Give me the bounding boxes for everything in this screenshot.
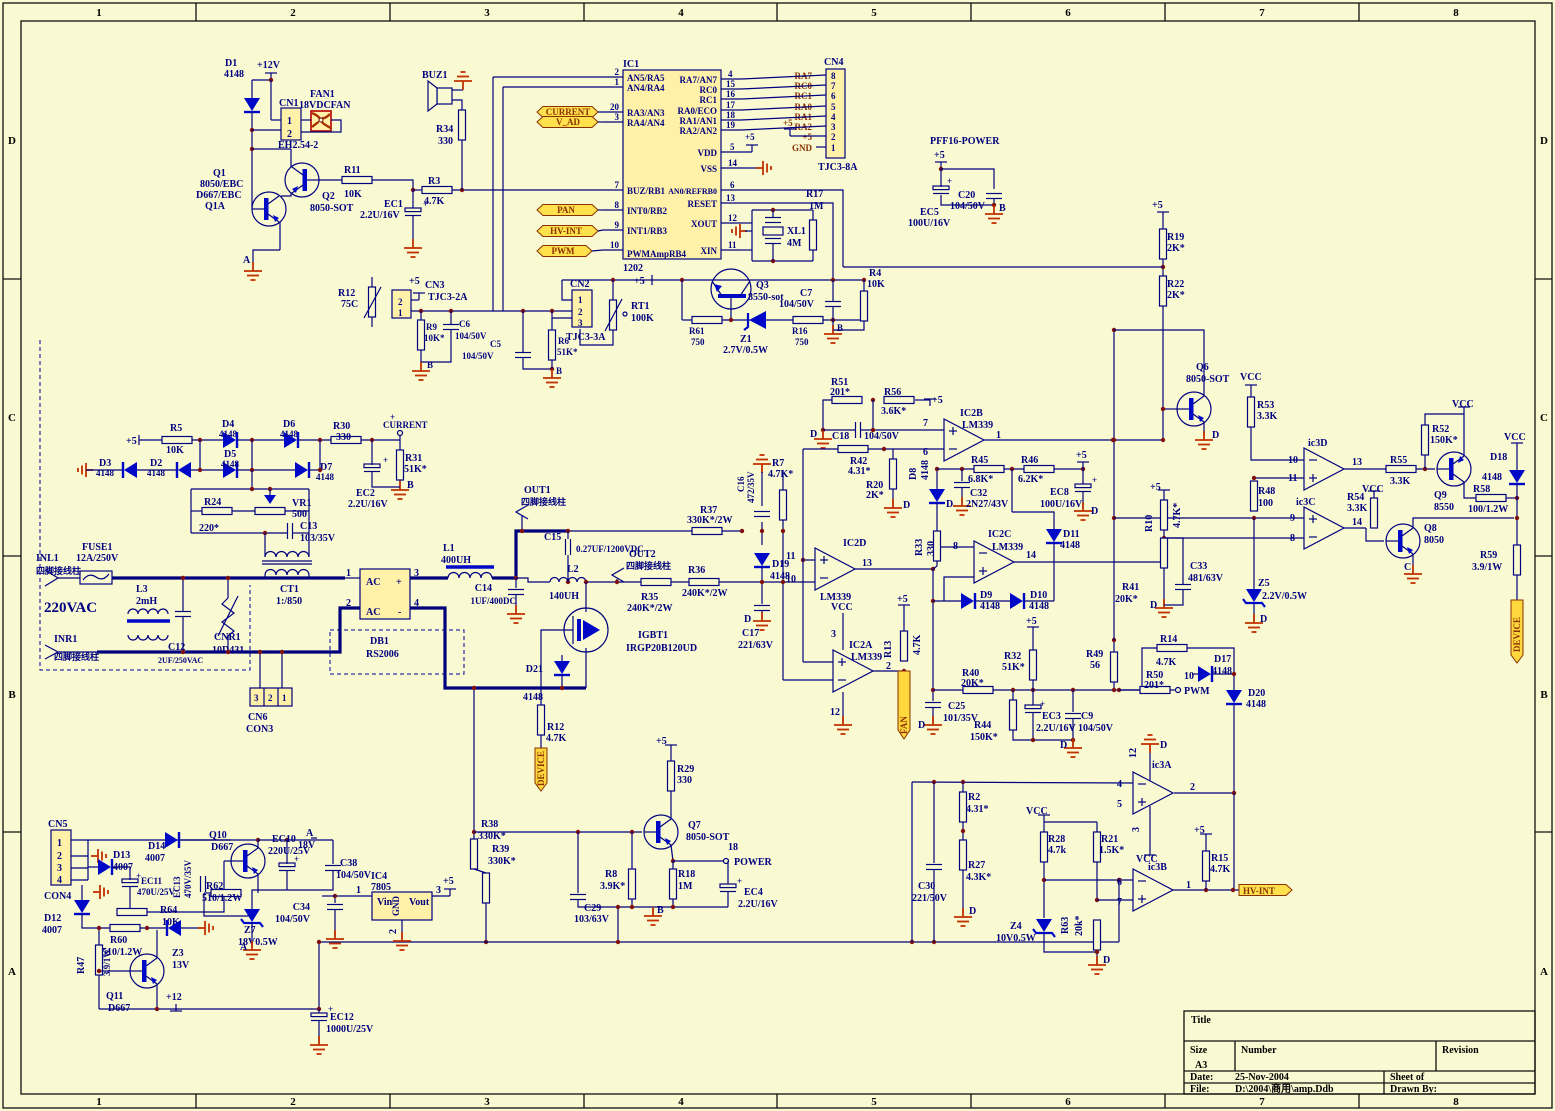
svg-text:4148: 4148 bbox=[224, 69, 244, 80]
svg-text:4148: 4148 bbox=[1482, 472, 1502, 483]
svg-text:R15: R15 bbox=[1211, 853, 1228, 864]
svg-text:B: B bbox=[8, 689, 16, 701]
svg-text:C20: C20 bbox=[958, 190, 975, 201]
svg-text:R24: R24 bbox=[204, 497, 221, 508]
svg-text:19: 19 bbox=[726, 120, 736, 130]
svg-text:+: + bbox=[383, 455, 388, 465]
svg-text:150K*: 150K* bbox=[970, 732, 998, 743]
svg-text:R34: R34 bbox=[436, 124, 453, 135]
svg-text:C7: C7 bbox=[800, 288, 812, 299]
svg-text:VCC: VCC bbox=[1240, 372, 1262, 383]
svg-text:10K: 10K bbox=[166, 445, 184, 456]
svg-text:AC: AC bbox=[366, 607, 380, 618]
svg-text:INT1/RB3: INT1/RB3 bbox=[627, 226, 668, 236]
svg-text:R48: R48 bbox=[1258, 486, 1275, 497]
svg-text:CN4: CN4 bbox=[824, 57, 843, 68]
svg-text:C14: C14 bbox=[475, 583, 492, 594]
svg-text:1202: 1202 bbox=[623, 263, 643, 274]
svg-text:DEVICE: DEVICE bbox=[536, 751, 546, 786]
svg-text:R2: R2 bbox=[968, 792, 980, 803]
svg-text:11: 11 bbox=[728, 240, 737, 250]
svg-text:R38: R38 bbox=[481, 819, 498, 830]
svg-text:C6: C6 bbox=[459, 319, 470, 329]
svg-text:EC4: EC4 bbox=[744, 887, 763, 898]
svg-text:DB1: DB1 bbox=[370, 636, 389, 647]
svg-text:Z1: Z1 bbox=[740, 334, 752, 345]
svg-text:+5: +5 bbox=[932, 395, 943, 406]
svg-text:2: 2 bbox=[1190, 782, 1195, 793]
svg-text:C: C bbox=[8, 412, 16, 424]
svg-text:EC3: EC3 bbox=[1042, 711, 1061, 722]
svg-text:2: 2 bbox=[290, 7, 296, 19]
svg-text:D9: D9 bbox=[980, 590, 992, 601]
svg-text:RA1/AN1: RA1/AN1 bbox=[680, 116, 718, 126]
svg-text:R21: R21 bbox=[1101, 834, 1118, 845]
svg-text:C: C bbox=[1404, 562, 1411, 573]
svg-text:1: 1 bbox=[356, 885, 361, 896]
svg-text:330K*/2W: 330K*/2W bbox=[687, 515, 733, 526]
svg-text:R12: R12 bbox=[547, 722, 564, 733]
svg-text:1M: 1M bbox=[678, 881, 693, 892]
svg-text:L1: L1 bbox=[443, 543, 455, 554]
svg-text:3.3K: 3.3K bbox=[1390, 476, 1411, 487]
svg-text:IC4: IC4 bbox=[371, 871, 387, 882]
svg-text:470U/25V: 470U/25V bbox=[137, 887, 176, 897]
svg-text:2K*: 2K* bbox=[866, 490, 884, 501]
svg-text:1000U/25V: 1000U/25V bbox=[326, 1024, 374, 1035]
svg-text:4: 4 bbox=[678, 1096, 684, 1108]
svg-text:B: B bbox=[999, 203, 1006, 214]
svg-text:750: 750 bbox=[691, 337, 705, 347]
svg-text:14: 14 bbox=[1026, 550, 1036, 561]
svg-text:9: 9 bbox=[1290, 513, 1295, 524]
svg-text:3: 3 bbox=[436, 885, 441, 896]
svg-text:CN1: CN1 bbox=[279, 98, 298, 109]
svg-text:VCC: VCC bbox=[1452, 399, 1474, 410]
svg-text:1: 1 bbox=[1186, 880, 1191, 891]
svg-text:17: 17 bbox=[726, 100, 736, 110]
svg-text:2K*: 2K* bbox=[1167, 290, 1185, 301]
svg-text:BUZ/RB1: BUZ/RB1 bbox=[627, 186, 666, 196]
svg-text:9: 9 bbox=[615, 220, 620, 230]
svg-text:4148: 4148 bbox=[1212, 666, 1232, 677]
svg-text:13: 13 bbox=[1352, 457, 1362, 468]
svg-text:4M: 4M bbox=[787, 238, 802, 249]
svg-text:12: 12 bbox=[1128, 748, 1139, 758]
svg-text:C13: C13 bbox=[300, 521, 317, 532]
svg-text:D: D bbox=[8, 135, 16, 147]
svg-text:R55: R55 bbox=[1390, 455, 1407, 466]
svg-text:2: 2 bbox=[388, 929, 399, 934]
svg-text:8: 8 bbox=[615, 200, 620, 210]
svg-text:R28: R28 bbox=[1048, 834, 1065, 845]
svg-text:6: 6 bbox=[1117, 877, 1122, 888]
svg-text:7: 7 bbox=[923, 418, 928, 429]
svg-text:Title: Title bbox=[1191, 1015, 1211, 1026]
svg-text:75C: 75C bbox=[341, 299, 358, 310]
svg-text:1: 1 bbox=[578, 295, 583, 305]
svg-text:6.2K*: 6.2K* bbox=[1018, 474, 1043, 485]
svg-text:V_AD: V_AD bbox=[556, 117, 580, 127]
svg-text:D8: D8 bbox=[908, 468, 919, 480]
svg-text:330: 330 bbox=[336, 432, 351, 443]
svg-text:CON4: CON4 bbox=[44, 891, 71, 902]
svg-text:R13: R13 bbox=[883, 641, 894, 658]
svg-text:R9: R9 bbox=[426, 322, 437, 332]
svg-text:201*: 201* bbox=[830, 387, 850, 398]
svg-text:Q1: Q1 bbox=[213, 168, 226, 179]
svg-text:RA2/AN2: RA2/AN2 bbox=[680, 126, 718, 136]
svg-text:1UF/400DC: 1UF/400DC bbox=[471, 596, 517, 606]
svg-text:1: 1 bbox=[96, 1096, 102, 1108]
svg-text:+5: +5 bbox=[634, 276, 645, 287]
svg-text:VCC: VCC bbox=[831, 602, 853, 613]
svg-text:221/50V: 221/50V bbox=[912, 893, 948, 904]
svg-text:51K*: 51K* bbox=[404, 464, 427, 475]
svg-text:10: 10 bbox=[1184, 671, 1194, 682]
svg-text:+: + bbox=[1040, 699, 1045, 709]
svg-text:3.6K*: 3.6K* bbox=[881, 406, 906, 417]
svg-text:RT1: RT1 bbox=[631, 301, 650, 312]
svg-text:4148: 4148 bbox=[1060, 540, 1080, 551]
svg-text:D: D bbox=[1260, 614, 1267, 625]
svg-text:6: 6 bbox=[730, 180, 735, 190]
svg-text:A: A bbox=[306, 828, 314, 839]
svg-text:PFF16-POWER: PFF16-POWER bbox=[930, 136, 1000, 147]
svg-text:AC: AC bbox=[366, 577, 380, 588]
svg-text:ic3A: ic3A bbox=[1152, 760, 1172, 771]
svg-text:4.7K: 4.7K bbox=[546, 733, 567, 744]
svg-text:C38: C38 bbox=[340, 858, 357, 869]
svg-text:-: - bbox=[398, 607, 401, 618]
svg-text:330: 330 bbox=[677, 775, 692, 786]
svg-text:INL1: INL1 bbox=[36, 553, 59, 564]
svg-text:+5: +5 bbox=[1076, 450, 1087, 461]
svg-text:L3: L3 bbox=[136, 584, 148, 595]
svg-text:4: 4 bbox=[728, 69, 733, 79]
svg-text:Q2: Q2 bbox=[322, 191, 335, 202]
svg-text:Q10: Q10 bbox=[209, 830, 227, 841]
svg-text:PWMAmpRB4: PWMAmpRB4 bbox=[627, 249, 686, 259]
svg-text:A: A bbox=[243, 255, 251, 266]
svg-text:104/50V: 104/50V bbox=[779, 299, 815, 310]
svg-text:R64: R64 bbox=[160, 905, 177, 916]
svg-text:2: 2 bbox=[57, 851, 62, 862]
svg-text:1: 1 bbox=[282, 693, 287, 703]
svg-text:D: D bbox=[1212, 430, 1219, 441]
svg-text:R32: R32 bbox=[1004, 651, 1021, 662]
svg-text:3: 3 bbox=[1131, 827, 1142, 832]
svg-text:A3: A3 bbox=[1195, 1060, 1207, 1071]
svg-text:FAN1: FAN1 bbox=[310, 89, 335, 100]
svg-text:R29: R29 bbox=[677, 764, 694, 775]
svg-text:13: 13 bbox=[726, 193, 736, 203]
svg-text:C33: C33 bbox=[1190, 561, 1207, 572]
svg-text:330K*: 330K* bbox=[488, 856, 516, 867]
svg-text:8: 8 bbox=[1453, 7, 1459, 19]
svg-text:4.7k: 4.7k bbox=[1048, 845, 1067, 856]
svg-text:2.7V/0.5W: 2.7V/0.5W bbox=[723, 345, 768, 356]
svg-text:RESET: RESET bbox=[687, 199, 717, 209]
svg-text:7: 7 bbox=[1259, 1096, 1265, 1108]
svg-text:330K*: 330K* bbox=[478, 831, 506, 842]
svg-text:221/63V: 221/63V bbox=[738, 640, 774, 651]
svg-text:R22: R22 bbox=[1167, 279, 1184, 290]
svg-text:Date:: Date: bbox=[1190, 1072, 1213, 1083]
svg-text:Z5: Z5 bbox=[1258, 578, 1270, 589]
svg-text:+5: +5 bbox=[1026, 616, 1037, 627]
svg-text:R53: R53 bbox=[1257, 400, 1274, 411]
svg-text:R12: R12 bbox=[338, 288, 355, 299]
svg-text:+: + bbox=[423, 199, 428, 209]
svg-text:3: 3 bbox=[254, 693, 259, 703]
svg-text:BUZ1: BUZ1 bbox=[422, 70, 448, 81]
svg-text:10: 10 bbox=[786, 574, 796, 585]
svg-text:D17: D17 bbox=[1214, 654, 1231, 665]
svg-text:3.3K: 3.3K bbox=[1257, 411, 1278, 422]
svg-text:8050-SOT: 8050-SOT bbox=[1186, 374, 1230, 385]
svg-text:10K: 10K bbox=[344, 189, 362, 200]
svg-text:1: 1 bbox=[96, 7, 102, 19]
svg-text:+5: +5 bbox=[897, 594, 908, 605]
svg-text:ic3B: ic3B bbox=[1148, 862, 1167, 873]
svg-text:4.3K*: 4.3K* bbox=[966, 872, 991, 883]
svg-text:2.2V/0.5W: 2.2V/0.5W bbox=[1262, 591, 1307, 602]
svg-text:VR1: VR1 bbox=[292, 498, 311, 509]
svg-text:C16: C16 bbox=[736, 476, 746, 492]
svg-text:2N27/43V: 2N27/43V bbox=[966, 499, 1009, 510]
svg-text:Q9: Q9 bbox=[1434, 490, 1447, 501]
svg-text:R39: R39 bbox=[492, 844, 509, 855]
svg-text:20k*: 20k* bbox=[1074, 915, 1085, 936]
svg-text:2: 2 bbox=[346, 598, 351, 609]
svg-text:EC12: EC12 bbox=[330, 1012, 354, 1023]
svg-text:R5: R5 bbox=[170, 423, 182, 434]
svg-text:R61: R61 bbox=[689, 326, 705, 336]
svg-text:6: 6 bbox=[1065, 7, 1071, 19]
svg-text:Sheet of: Sheet of bbox=[1390, 1072, 1425, 1083]
svg-text:+5: +5 bbox=[802, 132, 812, 142]
svg-text:D1: D1 bbox=[225, 58, 237, 69]
svg-text:Number: Number bbox=[1241, 1045, 1277, 1056]
svg-text:D18: D18 bbox=[1490, 452, 1507, 463]
svg-text:2: 2 bbox=[615, 67, 620, 77]
svg-text:AN0/REFRB0: AN0/REFRB0 bbox=[668, 187, 717, 196]
svg-text:IC2C: IC2C bbox=[988, 529, 1011, 540]
svg-text:EC10: EC10 bbox=[272, 834, 296, 845]
svg-text:4148: 4148 bbox=[219, 429, 238, 439]
svg-text:B: B bbox=[837, 323, 843, 333]
svg-text:201*: 201* bbox=[1144, 680, 1164, 691]
svg-text:3.9/1W: 3.9/1W bbox=[1472, 562, 1502, 573]
svg-text:四脚接线柱: 四脚接线柱 bbox=[626, 560, 671, 571]
svg-text:C18: C18 bbox=[832, 431, 849, 442]
svg-text:R7: R7 bbox=[772, 458, 784, 469]
svg-text:B: B bbox=[427, 360, 433, 370]
svg-text:C34: C34 bbox=[293, 902, 310, 913]
svg-text:Q11: Q11 bbox=[106, 991, 123, 1002]
svg-text:8050-SOT: 8050-SOT bbox=[310, 203, 354, 214]
svg-text:D: D bbox=[1103, 955, 1110, 966]
svg-text:4.7K*: 4.7K* bbox=[1172, 503, 1183, 528]
svg-text:R56: R56 bbox=[884, 387, 901, 398]
svg-text:6: 6 bbox=[831, 91, 836, 101]
svg-text:Z4: Z4 bbox=[1010, 921, 1022, 932]
svg-text:25-Nov-2004: 25-Nov-2004 bbox=[1235, 1072, 1289, 1083]
svg-text:10K*: 10K* bbox=[424, 333, 445, 343]
svg-text:R14: R14 bbox=[1160, 634, 1177, 645]
svg-text:D14: D14 bbox=[148, 841, 165, 852]
svg-text:Revision: Revision bbox=[1442, 1045, 1479, 1056]
svg-text:104/50V: 104/50V bbox=[864, 431, 900, 442]
svg-text:R52: R52 bbox=[1432, 424, 1449, 435]
svg-text:Drawn By:: Drawn By: bbox=[1390, 1084, 1437, 1095]
svg-text:R31: R31 bbox=[405, 453, 422, 464]
svg-text:D11: D11 bbox=[1063, 529, 1080, 540]
svg-text:R16: R16 bbox=[792, 326, 808, 336]
svg-text:D: D bbox=[1150, 600, 1157, 611]
svg-text:1: 1 bbox=[831, 143, 836, 153]
svg-text:330: 330 bbox=[438, 136, 453, 147]
svg-text:R11: R11 bbox=[344, 165, 361, 176]
svg-text:103/63V: 103/63V bbox=[574, 914, 610, 925]
svg-text:DEVICE: DEVICE bbox=[1512, 617, 1522, 652]
svg-text:+5: +5 bbox=[1150, 482, 1161, 493]
svg-text:EC2: EC2 bbox=[356, 488, 375, 499]
svg-text:104/50V: 104/50V bbox=[1078, 723, 1114, 734]
svg-text:4: 4 bbox=[1117, 779, 1122, 790]
svg-text:14: 14 bbox=[1352, 517, 1362, 528]
svg-text:5: 5 bbox=[831, 102, 836, 112]
svg-text:RA0/ECO: RA0/ECO bbox=[677, 106, 717, 116]
svg-text:CT1: CT1 bbox=[280, 584, 299, 595]
svg-text:14: 14 bbox=[728, 158, 738, 168]
svg-text:C30: C30 bbox=[918, 881, 935, 892]
svg-text:ic3D: ic3D bbox=[1308, 438, 1327, 449]
svg-text:R58: R58 bbox=[1473, 484, 1490, 495]
svg-text:EC1: EC1 bbox=[384, 199, 403, 210]
svg-text:C9: C9 bbox=[1081, 711, 1093, 722]
svg-text:ic3C: ic3C bbox=[1296, 497, 1315, 508]
svg-text:Q6: Q6 bbox=[1196, 362, 1209, 373]
svg-text:Q7: Q7 bbox=[688, 820, 701, 831]
svg-text:104/50V: 104/50V bbox=[950, 201, 986, 212]
svg-text:TJC3-8A: TJC3-8A bbox=[818, 162, 858, 173]
svg-text:4: 4 bbox=[831, 112, 836, 122]
svg-text:D: D bbox=[810, 429, 817, 440]
svg-text:FUSE1: FUSE1 bbox=[82, 542, 113, 553]
svg-text:IGBT1: IGBT1 bbox=[638, 630, 668, 641]
svg-text:XOUT: XOUT bbox=[691, 219, 717, 229]
svg-text:1.5K*: 1.5K* bbox=[1099, 845, 1124, 856]
svg-text:+5: +5 bbox=[126, 436, 137, 447]
svg-text:220*: 220* bbox=[199, 523, 219, 534]
svg-text:D: D bbox=[969, 906, 976, 917]
svg-text:100U/16V: 100U/16V bbox=[908, 218, 951, 229]
svg-text:D21: D21 bbox=[526, 664, 543, 675]
svg-text:18V: 18V bbox=[298, 840, 316, 851]
svg-text:CON3: CON3 bbox=[246, 724, 273, 735]
svg-text:A: A bbox=[1540, 966, 1548, 978]
svg-text:4148: 4148 bbox=[1029, 601, 1049, 612]
svg-text:CN5: CN5 bbox=[48, 819, 67, 830]
svg-text:POWER: POWER bbox=[734, 857, 773, 868]
svg-text:+: + bbox=[1092, 475, 1097, 485]
svg-text:LM339: LM339 bbox=[992, 542, 1023, 553]
svg-text:D: D bbox=[744, 614, 751, 625]
svg-text:10K: 10K bbox=[867, 279, 885, 290]
svg-text:D: D bbox=[1160, 740, 1167, 751]
svg-text:104/50V: 104/50V bbox=[336, 870, 372, 881]
svg-text:10: 10 bbox=[1288, 455, 1298, 466]
svg-text:Q1A: Q1A bbox=[205, 201, 226, 212]
svg-text:4148: 4148 bbox=[147, 468, 166, 478]
svg-text:PWM: PWM bbox=[1184, 686, 1210, 697]
svg-text:A: A bbox=[240, 942, 248, 953]
svg-text:2.2U/16V: 2.2U/16V bbox=[1036, 723, 1077, 734]
svg-text:4148: 4148 bbox=[280, 429, 299, 439]
svg-text:RC1: RC1 bbox=[700, 95, 718, 105]
svg-text:2mH: 2mH bbox=[136, 596, 157, 607]
svg-text:20: 20 bbox=[610, 102, 620, 112]
svg-text:1: 1 bbox=[996, 430, 1001, 441]
svg-text:3: 3 bbox=[578, 318, 583, 328]
svg-text:8050: 8050 bbox=[1424, 535, 1444, 546]
svg-text:R33: R33 bbox=[914, 539, 925, 556]
svg-text:PWM: PWM bbox=[552, 246, 575, 256]
svg-text:18VDCFAN: 18VDCFAN bbox=[299, 100, 351, 111]
svg-text:+5: +5 bbox=[745, 132, 755, 142]
svg-text:12: 12 bbox=[728, 213, 738, 223]
svg-text:100/1.2W: 100/1.2W bbox=[1468, 504, 1508, 515]
svg-text:EC13: EC13 bbox=[172, 876, 182, 898]
svg-text:104/50V: 104/50V bbox=[275, 914, 311, 925]
svg-text:CN3: CN3 bbox=[425, 280, 444, 291]
svg-text:11: 11 bbox=[786, 551, 795, 562]
svg-text:GND: GND bbox=[391, 896, 401, 917]
svg-text:7: 7 bbox=[615, 180, 620, 190]
svg-text:D13: D13 bbox=[113, 850, 130, 861]
svg-text:CURRENT: CURRENT bbox=[546, 107, 591, 117]
svg-text:INR1: INR1 bbox=[54, 634, 77, 645]
svg-text:3: 3 bbox=[57, 863, 62, 874]
svg-text:+: + bbox=[737, 876, 742, 886]
svg-text:R35: R35 bbox=[641, 592, 658, 603]
svg-text:C: C bbox=[1540, 412, 1548, 424]
svg-text:8550: 8550 bbox=[1434, 502, 1454, 513]
svg-text:10: 10 bbox=[610, 240, 620, 250]
svg-text:+5: +5 bbox=[934, 150, 945, 161]
svg-text:C32: C32 bbox=[970, 488, 987, 499]
svg-text:+5: +5 bbox=[443, 876, 454, 887]
svg-text:R8: R8 bbox=[605, 869, 617, 880]
svg-text:4148: 4148 bbox=[96, 468, 115, 478]
svg-text:IC2B: IC2B bbox=[960, 408, 983, 419]
svg-text:四脚接线柱: 四脚接线柱 bbox=[54, 651, 99, 662]
svg-text:104/50V: 104/50V bbox=[462, 351, 494, 361]
svg-text:VCC: VCC bbox=[1362, 484, 1384, 495]
svg-text:51K*: 51K* bbox=[557, 347, 578, 357]
svg-text:IC2D: IC2D bbox=[843, 538, 866, 549]
svg-text:104/50V: 104/50V bbox=[455, 331, 487, 341]
svg-text:R47: R47 bbox=[76, 957, 87, 974]
svg-text:7: 7 bbox=[831, 81, 836, 91]
svg-text:TJC3-3A: TJC3-3A bbox=[566, 332, 606, 343]
svg-text:7: 7 bbox=[1259, 7, 1265, 19]
svg-text:3.9/1W: 3.9/1W bbox=[102, 949, 112, 976]
svg-text:IRGP20B120UD: IRGP20B120UD bbox=[626, 643, 697, 654]
svg-text:4007: 4007 bbox=[145, 853, 165, 864]
